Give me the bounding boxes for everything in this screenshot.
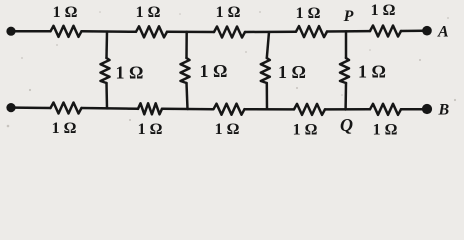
resistor R7 1Ω bottom — [138, 103, 162, 114]
svg-text:1 Ω: 1 Ω — [136, 4, 161, 21]
wire shunt 3 upper lead — [267, 32, 269, 58]
wire shunt 4 lower lead — [344, 83, 347, 110]
resistor R5 1Ω top — [370, 26, 401, 37]
resistor R6 1Ω bottom — [51, 103, 82, 114]
resistor R8 1Ω bottom — [214, 104, 245, 115]
wire top rail: R3 to node 3 — [245, 30, 296, 33]
svg-text:1 Ω: 1 Ω — [293, 122, 318, 139]
wire top rail: R4 to node P — [327, 30, 370, 33]
wire bottom rail: R10 to terminal B — [401, 108, 422, 111]
resistor R10 1Ω bottom — [370, 104, 401, 115]
svg-text:1 Ω: 1 Ω — [138, 121, 163, 138]
resistor R13 1Ω shunt 3 — [261, 58, 270, 83]
terminal dot A — [422, 26, 432, 36]
wire shunt 1 lower lead — [105, 83, 108, 108]
svg-text:B: B — [438, 102, 450, 119]
wire top rail: dot to R1 — [14, 30, 51, 33]
wire top rail: R1 to node 1 — [82, 30, 137, 33]
wire top rail: R5 to terminal A — [401, 30, 423, 33]
svg-text:1 Ω: 1 Ω — [296, 5, 321, 22]
wire bottom rail: R9 to node Q — [325, 108, 370, 111]
svg-text:1 Ω: 1 Ω — [216, 4, 241, 21]
scan noise speckles — [7, 11, 456, 127]
resistor R11 1Ω shunt 1 — [101, 58, 110, 83]
svg-text:1 Ω: 1 Ω — [52, 120, 77, 137]
wire shunt 2 upper lead — [185, 32, 188, 58]
resistor R9 1Ω bottom — [294, 104, 325, 115]
resistor R14 1Ω shunt 4 — [340, 58, 349, 83]
wire bottom rail: R6 to node 1 — [82, 107, 139, 110]
wire bottom rail: dot to R6 — [14, 106, 51, 109]
resistor R4 1Ω top — [296, 26, 327, 37]
terminal dot B — [422, 104, 432, 114]
svg-text:1 Ω: 1 Ω — [371, 2, 396, 19]
svg-text:1 Ω: 1 Ω — [358, 62, 386, 82]
svg-text:1 Ω: 1 Ω — [200, 61, 228, 81]
wire shunt 2 lower lead — [187, 83, 188, 109]
resistor R2 1Ω top — [136, 26, 167, 37]
terminal dot bottom-left input — [6, 103, 15, 112]
svg-text:Q: Q — [340, 115, 353, 135]
wire top rail: R2 to node 2 — [167, 31, 214, 34]
wire shunt 3 lower lead — [266, 83, 269, 109]
resistor R1 1Ω top — [51, 26, 82, 37]
svg-text:A: A — [437, 24, 449, 41]
wire shunt 1 upper lead — [105, 32, 108, 58]
resistor R3 1Ω top — [214, 27, 245, 38]
svg-text:1 Ω: 1 Ω — [373, 122, 398, 139]
svg-text:P: P — [343, 8, 354, 25]
svg-text:1 Ω: 1 Ω — [278, 62, 306, 82]
terminal dot top-left input — [6, 27, 15, 36]
svg-text:1 Ω: 1 Ω — [215, 121, 240, 138]
wire bottom rail: R8 to node 3 — [245, 108, 295, 111]
resistor R12 1Ω shunt 2 — [181, 58, 190, 83]
svg-text:1 Ω: 1 Ω — [53, 4, 78, 21]
wire shunt 4 upper lead — [345, 31, 348, 58]
svg-text:1 Ω: 1 Ω — [116, 63, 144, 83]
wire bottom rail: R7 to node 2 — [162, 108, 213, 111]
